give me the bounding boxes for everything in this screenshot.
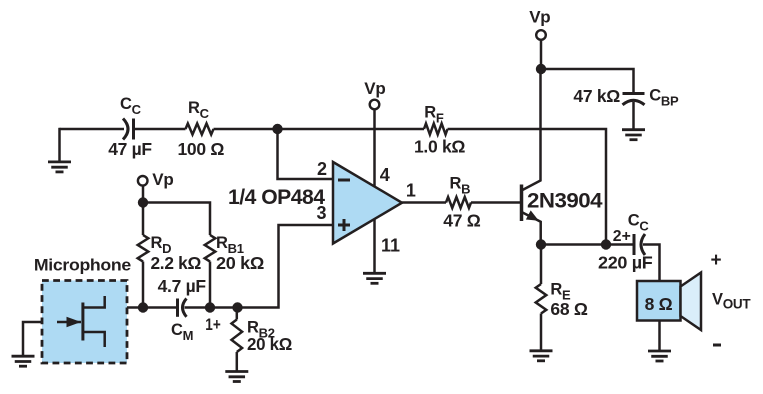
wire top-left horizontal to input cap	[60, 128, 125, 131]
wire top-left drop to ground	[58, 128, 61, 162]
svg-text:2+: 2+	[613, 228, 631, 245]
mic JFET gate lead	[57, 321, 81, 324]
svg-text:47 kΩ: 47 kΩ	[573, 86, 620, 106]
node emitter junction dot	[536, 239, 546, 249]
ground RB2	[225, 372, 248, 382]
mic JFET source lead	[83, 332, 105, 347]
wire RF to feedback corner	[448, 129, 607, 245]
wire CBP to ground	[632, 102, 635, 130]
svg-text:1+: 1+	[205, 315, 221, 334]
wire op-amp output to RB	[402, 201, 446, 204]
svg-text:+: +	[710, 250, 721, 271]
svg-text:2.2 kΩ: 2.2 kΩ	[151, 253, 202, 273]
microphone box	[42, 281, 127, 364]
wire RD bottom to mic node	[142, 262, 145, 308]
Vp terminal left	[138, 176, 148, 186]
node A junction dot	[272, 124, 282, 134]
wire CM to RB2 node	[185, 306, 238, 309]
node RB2 junction dot	[232, 302, 242, 312]
wire cap to resistor RC	[134, 128, 186, 131]
wire supply node to CBP	[541, 69, 634, 92]
svg-text:2N3904: 2N3904	[527, 188, 603, 212]
resistor RE 68 ohm	[540, 245, 543, 285]
svg-text:47 µF: 47 µF	[108, 139, 152, 159]
speaker 8 ohm box	[637, 281, 681, 321]
wire RB1 bottom to node	[209, 262, 212, 308]
wire node A down to pin2	[278, 129, 334, 179]
svg-text:20 kΩ: 20 kΩ	[247, 334, 292, 354]
svg-text:2: 2	[317, 159, 327, 179]
ground CBP	[622, 130, 645, 140]
svg-text:Microphone: Microphone	[34, 256, 131, 274]
wire RB2 to ground	[236, 352, 239, 372]
svg-text:Vp: Vp	[152, 170, 173, 189]
svg-text:1/4 OP484: 1/4 OP484	[228, 185, 325, 209]
resistor RB2 20 kohm	[236, 308, 239, 320]
svg-text:68 Ω: 68 Ω	[550, 299, 587, 319]
wire node A to RF	[278, 128, 425, 131]
speaker cone	[681, 273, 702, 331]
wire Vp to pin 4	[373, 109, 376, 188]
resistor RC 100 ohm	[186, 124, 214, 135]
wire emitter node to output cap node	[541, 243, 606, 246]
node bias junction dot	[138, 197, 148, 207]
ground speaker	[648, 351, 671, 361]
resistor RF 1.0 kohm	[424, 124, 448, 135]
resistor RD 2.2 kohm	[142, 203, 145, 236]
svg-text:100 Ω: 100 Ω	[178, 139, 225, 159]
op-amp plus input sign	[338, 219, 350, 231]
wire Vp top to collector node	[540, 40, 543, 71]
transistor emitter lead	[522, 212, 541, 245]
capacitor CM plates	[176, 299, 179, 317]
wire bias node to RB1 top	[143, 203, 210, 236]
wire mic to CM	[127, 306, 178, 309]
ground op-amp pin 11	[363, 273, 386, 283]
ground top-left	[48, 162, 71, 172]
mic JFET gate arrowhead	[67, 317, 82, 327]
capacitor CC input (curved + straight plate)	[123, 119, 128, 140]
transistor collector lead	[522, 69, 541, 191]
Vp terminal top	[536, 30, 546, 40]
svg-text:4: 4	[380, 165, 390, 185]
ground microphone	[12, 356, 35, 366]
svg-text:8 Ω: 8 Ω	[645, 294, 673, 314]
wire output node to CC out	[606, 243, 634, 246]
node mic output junction dot	[138, 302, 148, 312]
Vp terminal above op-amp	[370, 100, 380, 110]
wire pin 11 to ground	[373, 219, 376, 273]
wire mic gate to ground	[23, 322, 42, 355]
wire pin3 from RB2 node	[238, 225, 334, 308]
svg-text:47 Ω: 47 Ω	[443, 211, 480, 231]
transistor emitter arrowhead	[526, 210, 539, 220]
op-amp U1 1/4 OP484	[333, 162, 402, 244]
svg-text:11: 11	[381, 236, 400, 256]
svg-text:20 kΩ: 20 kΩ	[216, 253, 264, 273]
svg-text:1.0 kΩ: 1.0 kΩ	[414, 137, 465, 157]
transistor Q1 2N3904 base bar	[520, 185, 524, 222]
node CM-RB1 junction dot	[205, 302, 215, 312]
svg-text:4.7 µF: 4.7 µF	[158, 276, 207, 296]
wire CC out to speaker	[643, 245, 660, 282]
svg-text:220 µF: 220 µF	[598, 253, 653, 273]
node collector-supply junction dot	[536, 64, 546, 74]
label minus output	[713, 344, 721, 347]
resistor RB1 20 kohm	[205, 235, 216, 262]
wire RE to ground	[540, 314, 543, 351]
mic JFET drain lead	[83, 296, 105, 308]
op-amp minus input sign	[338, 179, 350, 182]
svg-text:3: 3	[316, 203, 326, 223]
resistor RB 47 ohm	[446, 197, 471, 208]
ground RE	[530, 351, 553, 361]
capacitor CC output plates	[633, 234, 636, 255]
wire speaker to ground	[658, 321, 661, 352]
svg-text:Vp: Vp	[364, 79, 385, 98]
capacitor CBP plates	[623, 92, 645, 95]
wire RB to transistor base	[471, 201, 520, 204]
svg-text:Vp: Vp	[529, 8, 550, 27]
svg-text:1: 1	[406, 181, 416, 201]
wire RC to node A	[214, 128, 278, 131]
node output junction dot	[601, 239, 611, 249]
mic JFET channel bar	[81, 303, 84, 341]
wire Vp left down to bias node	[142, 185, 145, 203]
